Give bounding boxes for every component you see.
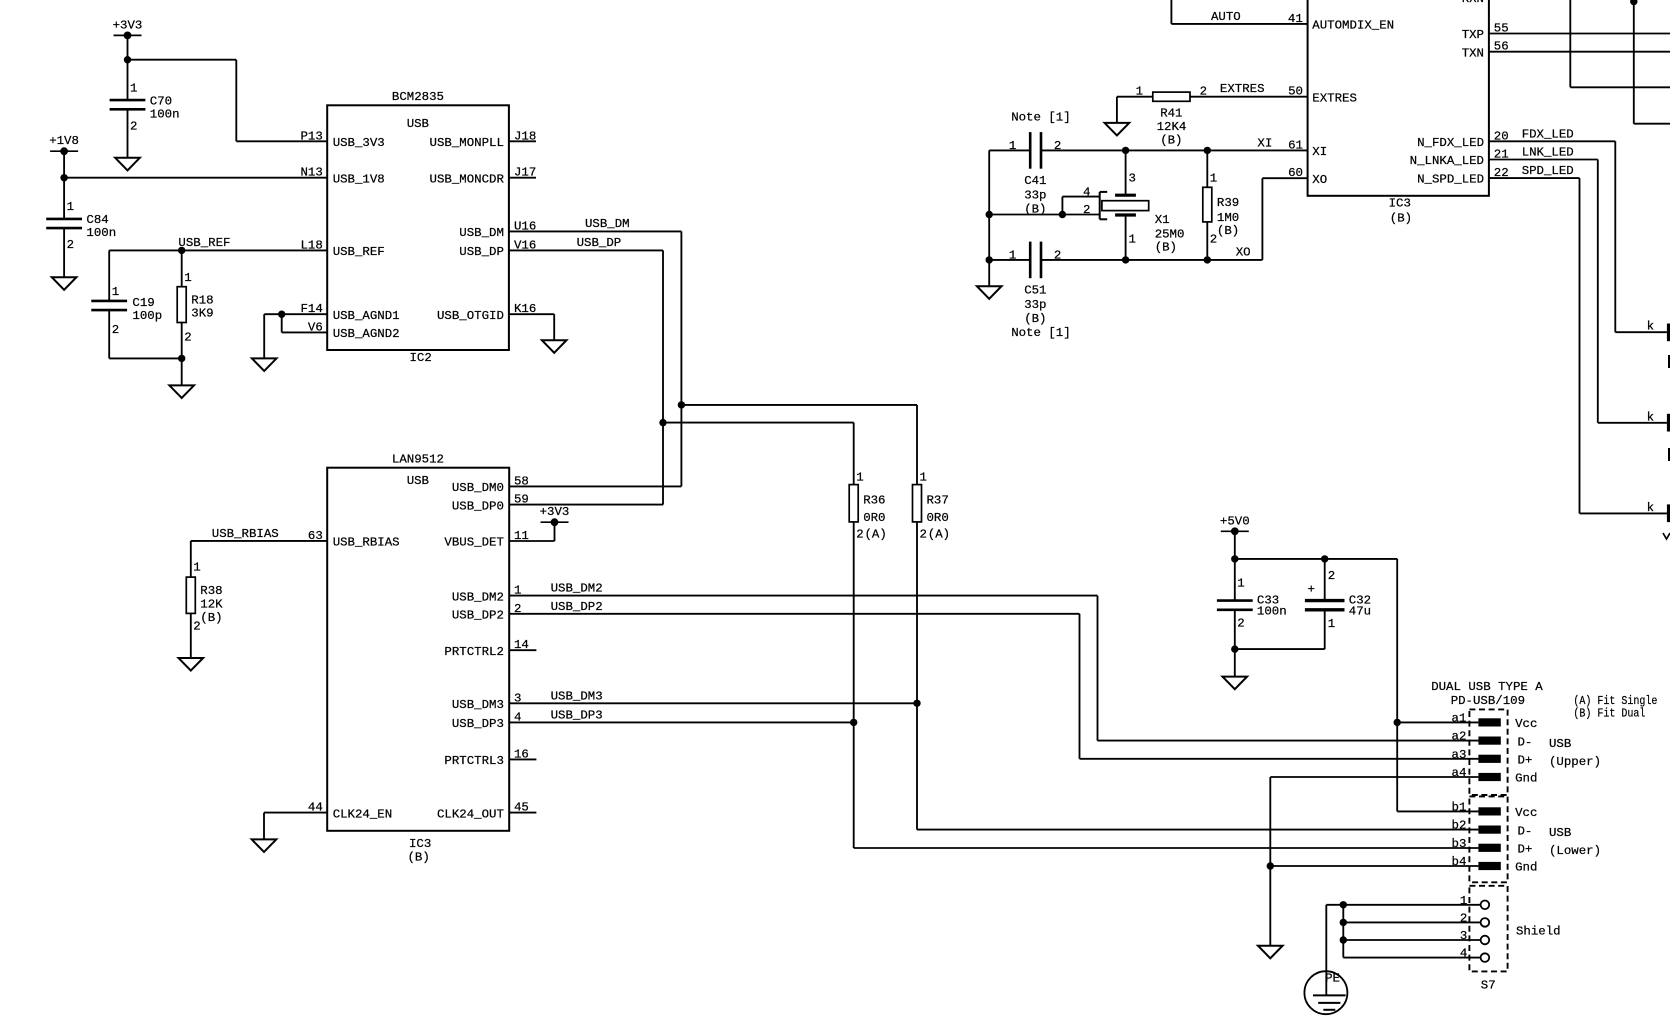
net label USB_DP2 bbox=[551, 600, 603, 614]
power +1V8 bbox=[49, 134, 79, 155]
connector shield dashed box bbox=[1469, 886, 1507, 972]
connector part PD-USB/109 bbox=[1451, 694, 1525, 708]
ETH refdes variant (B) bbox=[1390, 212, 1412, 226]
partial LED glyphs at edge bbox=[1663, 355, 1670, 539]
svg-text:100n: 100n bbox=[150, 108, 180, 122]
wire C33/C32 bottom node bbox=[1235, 648, 1325, 650]
resistor R41 bbox=[1117, 85, 1207, 148]
svg-text:58: 58 bbox=[514, 474, 529, 488]
svg-text:USB_3V3: USB_3V3 bbox=[333, 136, 385, 150]
wire Gnd a4/b4 bbox=[1267, 777, 1479, 946]
IC2 pin names left bbox=[333, 136, 400, 341]
svg-text:PD-USB/109: PD-USB/109 bbox=[1451, 694, 1525, 708]
wire TXN bbox=[1489, 51, 1670, 53]
LAN pin PRTCTRL2 stub bbox=[509, 649, 536, 651]
net label USB_REF bbox=[178, 236, 230, 250]
wire SPD_LED net bbox=[1489, 178, 1667, 513]
ETH partial pin name RXN bbox=[1462, 0, 1484, 6]
svg-text:D+: D+ bbox=[1518, 754, 1533, 768]
connector upper USB dashed box bbox=[1469, 709, 1507, 795]
LAN title LAN9512 bbox=[392, 453, 444, 467]
svg-text:USB_DP: USB_DP bbox=[577, 236, 622, 250]
IC2 pin numbers right bbox=[514, 129, 536, 316]
resistor R36 bbox=[849, 471, 887, 542]
svg-text:EXTRES: EXTRES bbox=[1312, 91, 1357, 105]
connector contact pads bbox=[1478, 718, 1500, 870]
svg-text:L18: L18 bbox=[300, 238, 322, 252]
connector refdes S7 bbox=[1481, 978, 1496, 992]
connector pin ids b1-b4 bbox=[1452, 800, 1467, 869]
LAN refdes variant (B) bbox=[408, 851, 430, 865]
ETH pin numbers left bbox=[1288, 12, 1303, 180]
svg-text:FDX_LED: FDX_LED bbox=[1522, 127, 1574, 141]
note annotation bottom bbox=[1011, 326, 1070, 340]
svg-text:R41: R41 bbox=[1160, 106, 1182, 120]
svg-text:25M0: 25M0 bbox=[1155, 228, 1185, 242]
wire USB_DP3 net bbox=[509, 522, 1478, 848]
connector shield pin numbers bbox=[1460, 894, 1467, 961]
wire USB_OTGID K16 to ground bbox=[509, 314, 554, 340]
LAN subtitle USB bbox=[407, 474, 429, 488]
svg-text:USB: USB bbox=[1549, 826, 1571, 840]
svg-text:1: 1 bbox=[184, 271, 191, 285]
svg-text:33p: 33p bbox=[1024, 189, 1046, 203]
wire shield bus bbox=[1326, 901, 1480, 995]
svg-text:USB_REF: USB_REF bbox=[333, 245, 385, 259]
LED cathode k FDX bbox=[1647, 320, 1670, 342]
svg-text:Gnd: Gnd bbox=[1515, 861, 1537, 875]
annotation (B) Fit Dual bbox=[1573, 707, 1645, 721]
svg-text:1: 1 bbox=[856, 471, 863, 485]
ground below R38 bbox=[179, 658, 204, 671]
svg-text:2: 2 bbox=[1083, 203, 1090, 217]
svg-text:1: 1 bbox=[920, 471, 927, 485]
svg-text:TXP: TXP bbox=[1462, 28, 1484, 42]
svg-text:X1: X1 bbox=[1155, 213, 1170, 227]
svg-text:BCM2835: BCM2835 bbox=[392, 90, 444, 104]
wire +3V3 to C70 and pin P13 bbox=[124, 35, 327, 141]
wire TXP bbox=[1489, 33, 1670, 35]
svg-text:0R0: 0R0 bbox=[927, 511, 949, 525]
svg-text:VBUS_DET: VBUS_DET bbox=[444, 536, 504, 550]
wire ethernet pair 2 bbox=[1630, 0, 1670, 124]
svg-text:4: 4 bbox=[1083, 186, 1090, 200]
svg-text:EXTRES: EXTRES bbox=[1220, 82, 1265, 96]
svg-text:USB_DP: USB_DP bbox=[459, 245, 504, 259]
svg-text:a2: a2 bbox=[1452, 730, 1467, 744]
crystal X1 case pins 4 and 2 bbox=[1059, 186, 1107, 220]
svg-text:2: 2 bbox=[1210, 233, 1217, 247]
svg-text:USB: USB bbox=[1549, 737, 1571, 751]
svg-text:3: 3 bbox=[1129, 171, 1136, 185]
svg-text:100n: 100n bbox=[86, 226, 116, 240]
ETH pin names left bbox=[1312, 19, 1394, 187]
IC U2 BCM2835 box bbox=[327, 105, 509, 350]
svg-text:XO: XO bbox=[1236, 246, 1251, 260]
svg-text:50: 50 bbox=[1288, 85, 1303, 99]
ground below R18 bbox=[169, 385, 194, 398]
capacitor C51 bbox=[1009, 242, 1061, 326]
svg-text:XI: XI bbox=[1257, 136, 1272, 150]
svg-text:XO: XO bbox=[1312, 173, 1327, 187]
IC U3 ethernet box bbox=[1308, 0, 1489, 196]
svg-text:1: 1 bbox=[67, 200, 74, 214]
svg-text:AUTOMDIX_EN: AUTOMDIX_EN bbox=[1312, 19, 1394, 33]
svg-text:AUTO: AUTO bbox=[1211, 10, 1241, 24]
connector pin ids a1-a4 bbox=[1452, 711, 1467, 780]
net label XO bbox=[1236, 246, 1251, 260]
svg-text:Gnd: Gnd bbox=[1515, 772, 1537, 786]
svg-text:1M0: 1M0 bbox=[1217, 211, 1239, 225]
svg-text:USB: USB bbox=[407, 117, 429, 131]
svg-text:(B): (B) bbox=[1024, 312, 1046, 326]
LAN pin names left bbox=[333, 536, 400, 822]
connector pin functions lower bbox=[1515, 806, 1537, 875]
svg-text:41: 41 bbox=[1288, 12, 1303, 26]
IC2 pin names right bbox=[430, 136, 505, 323]
wire EXTRES net bbox=[1190, 96, 1308, 98]
net label XI bbox=[1257, 136, 1272, 150]
svg-text:a3: a3 bbox=[1452, 748, 1467, 762]
svg-text:12K4: 12K4 bbox=[1157, 120, 1187, 134]
net label USB_RBIAS bbox=[212, 527, 279, 541]
ground for CLK24_EN bbox=[252, 839, 277, 852]
svg-text:2: 2 bbox=[920, 527, 927, 541]
connector shield pin circles bbox=[1481, 901, 1490, 962]
IC2 pin J17 stub bbox=[509, 177, 536, 179]
svg-text:60: 60 bbox=[1288, 166, 1303, 180]
net label FDX_LED bbox=[1522, 127, 1574, 141]
svg-text:1: 1 bbox=[1009, 248, 1016, 262]
svg-text:N_FDX_LED: N_FDX_LED bbox=[1417, 136, 1484, 150]
svg-text:2: 2 bbox=[1237, 616, 1244, 630]
svg-text:+5V0: +5V0 bbox=[1220, 514, 1250, 528]
svg-text:D-: D- bbox=[1518, 735, 1533, 749]
svg-text:D+: D+ bbox=[1518, 843, 1533, 857]
svg-text:USB_OTGID: USB_OTGID bbox=[437, 309, 504, 323]
IC2 pin J18 stub bbox=[509, 140, 536, 142]
capacitor C41 bbox=[1009, 132, 1061, 217]
svg-text:USB_DP0: USB_DP0 bbox=[452, 499, 504, 513]
power +3V3 bbox=[113, 18, 143, 39]
svg-text:+1V8: +1V8 bbox=[49, 134, 79, 148]
svg-text:SPD_LED: SPD_LED bbox=[1522, 164, 1574, 178]
svg-text:USB: USB bbox=[407, 474, 429, 488]
svg-text:PRTCTRL3: PRTCTRL3 bbox=[444, 754, 504, 768]
LAN refdes IC3 bbox=[409, 837, 431, 851]
svg-text:Note [1]: Note [1] bbox=[1011, 326, 1070, 340]
svg-text:PRTCTRL2: PRTCTRL2 bbox=[444, 645, 504, 659]
svg-text:USB_RBIAS: USB_RBIAS bbox=[212, 527, 279, 541]
IC2 pin numbers left bbox=[300, 129, 322, 334]
svg-text:1: 1 bbox=[112, 285, 119, 299]
earth symbol PE bbox=[1304, 971, 1347, 1014]
net label USB_DM bbox=[585, 217, 630, 231]
svg-text:D-: D- bbox=[1518, 824, 1533, 838]
svg-text:47u: 47u bbox=[1349, 605, 1371, 619]
svg-text:b3: b3 bbox=[1452, 837, 1467, 851]
IC2 refdes IC2 bbox=[410, 351, 432, 365]
wire USB_DM2 net bbox=[509, 596, 1478, 741]
net label LNK_LED bbox=[1522, 146, 1574, 160]
svg-text:100p: 100p bbox=[132, 309, 162, 323]
connector title DUAL USB TYPE A bbox=[1431, 680, 1543, 694]
LED cathode k LNK bbox=[1647, 410, 1670, 431]
svg-text:XI: XI bbox=[1312, 145, 1327, 159]
wire LNK_LED net bbox=[1489, 160, 1667, 423]
svg-text:1: 1 bbox=[1009, 139, 1016, 153]
svg-text:PE: PE bbox=[1325, 972, 1340, 986]
svg-text:USB_DM0: USB_DM0 bbox=[452, 481, 504, 495]
svg-text:R36: R36 bbox=[863, 493, 885, 507]
capacitor C19 bbox=[91, 285, 162, 358]
wire left rail to ground bbox=[986, 150, 1063, 286]
svg-text:CLK24_EN: CLK24_EN bbox=[333, 807, 393, 821]
LED cathode k SPD bbox=[1647, 501, 1670, 522]
svg-text:k: k bbox=[1647, 501, 1654, 515]
svg-text:C70: C70 bbox=[150, 95, 172, 109]
svg-text:USB_DP3: USB_DP3 bbox=[551, 708, 603, 722]
label USB (Upper) bbox=[1549, 737, 1601, 769]
svg-text:33p: 33p bbox=[1024, 298, 1046, 312]
wire USB_DP2 net bbox=[509, 614, 1478, 759]
wire USB_RBIAS net bbox=[191, 541, 327, 577]
IC2 title BCM2835 bbox=[392, 90, 444, 104]
svg-text:C19: C19 bbox=[132, 296, 154, 310]
svg-text:IC3: IC3 bbox=[409, 837, 431, 851]
svg-text:(A): (A) bbox=[865, 527, 887, 541]
ground for USB connector bbox=[1258, 946, 1283, 959]
svg-text:1: 1 bbox=[1136, 85, 1143, 99]
svg-text:2: 2 bbox=[112, 323, 119, 337]
ETH pin names right bbox=[1410, 28, 1484, 186]
svg-text:(B): (B) bbox=[1155, 241, 1177, 255]
svg-text:1: 1 bbox=[1129, 233, 1136, 247]
svg-text:2: 2 bbox=[184, 331, 191, 345]
ground for USB_AGND bbox=[252, 358, 277, 371]
svg-text:N_LNKA_LED: N_LNKA_LED bbox=[1410, 154, 1484, 168]
svg-text:USB_DM3: USB_DM3 bbox=[551, 689, 603, 703]
svg-text:+3V3: +3V3 bbox=[540, 505, 570, 519]
wire +1V8 to C84 and pin N13 bbox=[60, 151, 327, 219]
IC2 subtitle USB bbox=[407, 117, 429, 131]
svg-text:CLK24_OUT: CLK24_OUT bbox=[437, 807, 504, 821]
svg-text:USB_DM3: USB_DM3 bbox=[452, 698, 504, 712]
wire USB_AGND1/2 to ground bbox=[264, 311, 327, 359]
svg-text:USB_DM: USB_DM bbox=[585, 217, 630, 231]
power +5V0 bbox=[1220, 514, 1250, 535]
resistor R18 bbox=[177, 250, 213, 385]
svg-text:USB_DP2: USB_DP2 bbox=[551, 600, 603, 614]
ground for USB_OTGID bbox=[542, 340, 567, 353]
wire ethernet pair 1 bbox=[1570, 0, 1670, 87]
label USB (Lower) bbox=[1549, 826, 1601, 858]
svg-text:2: 2 bbox=[856, 527, 863, 541]
svg-text:2: 2 bbox=[1200, 85, 1207, 99]
svg-text:IC3: IC3 bbox=[1389, 197, 1411, 211]
svg-text:USB_RBIAS: USB_RBIAS bbox=[333, 536, 400, 550]
connector pin functions upper bbox=[1515, 717, 1537, 786]
connector lower USB dashed box bbox=[1469, 796, 1507, 882]
svg-text:2: 2 bbox=[130, 120, 137, 134]
capacitor C33 bbox=[1217, 577, 1287, 677]
wire USB_DM net bbox=[509, 231, 917, 486]
svg-text:Vcc: Vcc bbox=[1515, 717, 1537, 731]
ground for crystal rail bbox=[977, 286, 1002, 299]
net label USB_DP bbox=[577, 236, 622, 250]
wire AUTO net bbox=[1171, 0, 1307, 24]
svg-text:100n: 100n bbox=[1257, 605, 1287, 619]
svg-text:Shield: Shield bbox=[1516, 925, 1561, 939]
svg-text:USB_1V8: USB_1V8 bbox=[333, 172, 385, 186]
svg-text:USB_REF: USB_REF bbox=[178, 236, 230, 250]
wire Vcc to a1 bbox=[1397, 721, 1478, 723]
svg-text:3K9: 3K9 bbox=[191, 307, 213, 321]
svg-text:DUAL USB TYPE A: DUAL USB TYPE A bbox=[1431, 680, 1543, 694]
svg-text:61: 61 bbox=[1288, 138, 1303, 152]
svg-text:(B): (B) bbox=[1160, 134, 1182, 148]
svg-text:0R0: 0R0 bbox=[863, 511, 885, 525]
net label EXTRES bbox=[1220, 82, 1265, 96]
svg-text:1: 1 bbox=[1328, 617, 1335, 631]
svg-text:R37: R37 bbox=[927, 493, 949, 507]
svg-text:LAN9512: LAN9512 bbox=[392, 453, 444, 467]
ground for R41 bbox=[1105, 123, 1130, 136]
svg-text:1: 1 bbox=[130, 82, 137, 96]
svg-text:(B): (B) bbox=[1217, 224, 1239, 238]
svg-text:N13: N13 bbox=[300, 166, 322, 180]
annotation (A) Fit Single bbox=[1573, 694, 1657, 708]
net label USB_DM2 bbox=[551, 582, 603, 596]
svg-text:2: 2 bbox=[193, 620, 200, 634]
svg-text:(B): (B) bbox=[408, 851, 430, 865]
capacitor C84 bbox=[46, 200, 116, 277]
svg-text:+3V3: +3V3 bbox=[113, 18, 143, 32]
svg-text:1: 1 bbox=[193, 561, 200, 575]
svg-text:USB_AGND2: USB_AGND2 bbox=[333, 327, 400, 341]
wire +5V0 rail bbox=[1231, 531, 1401, 811]
resistor R38 bbox=[186, 561, 223, 658]
net label USB_DM3 bbox=[551, 689, 603, 703]
svg-text:C84: C84 bbox=[86, 213, 108, 227]
svg-text:(B): (B) bbox=[1390, 212, 1412, 226]
svg-text:2: 2 bbox=[67, 238, 74, 252]
svg-text:b2: b2 bbox=[1452, 819, 1467, 833]
label Shield bbox=[1516, 925, 1561, 939]
ground below C84 bbox=[52, 277, 77, 290]
svg-text:(B) Fit Dual: (B) Fit Dual bbox=[1573, 707, 1645, 721]
ground below C70 bbox=[115, 158, 140, 171]
svg-text:Vcc: Vcc bbox=[1515, 806, 1537, 820]
svg-text:2: 2 bbox=[1328, 569, 1335, 583]
LAN pin names right bbox=[437, 481, 504, 821]
svg-text:USB_MONPLL: USB_MONPLL bbox=[430, 136, 504, 150]
ETH pin numbers right bbox=[1494, 22, 1509, 181]
svg-text:LNK_LED: LNK_LED bbox=[1522, 146, 1574, 160]
svg-text:TXN: TXN bbox=[1462, 46, 1484, 60]
LAN pin PRTCTRL3 stub bbox=[509, 758, 536, 760]
wire USB_DM3 net bbox=[509, 522, 1478, 830]
note annotation top bbox=[1011, 110, 1070, 124]
svg-text:k: k bbox=[1647, 320, 1654, 334]
svg-text:(B): (B) bbox=[200, 611, 222, 625]
svg-text:N_SPD_LED: N_SPD_LED bbox=[1417, 172, 1484, 186]
wire XI net bbox=[989, 147, 1307, 154]
svg-text:USB_DM2: USB_DM2 bbox=[452, 590, 504, 604]
svg-text:2: 2 bbox=[1054, 139, 1061, 153]
svg-text:USB_MONCDR: USB_MONCDR bbox=[430, 172, 505, 186]
svg-text:1: 1 bbox=[1237, 577, 1244, 591]
resistor R37 bbox=[913, 471, 951, 542]
svg-text:59: 59 bbox=[514, 493, 529, 507]
LAN pin numbers left bbox=[308, 529, 323, 815]
LAN pin numbers right bbox=[514, 474, 529, 814]
capacitor C32 electrolytic bbox=[1305, 569, 1371, 649]
svg-text:USB_DP2: USB_DP2 bbox=[452, 609, 504, 623]
svg-text:C41: C41 bbox=[1024, 174, 1046, 188]
svg-text:R18: R18 bbox=[191, 293, 213, 307]
svg-text:R38: R38 bbox=[200, 584, 222, 598]
svg-text:Note [1]: Note [1] bbox=[1011, 110, 1070, 124]
wire USB_REF net bbox=[109, 247, 327, 301]
net label SPD_LED bbox=[1522, 164, 1574, 178]
svg-text:P13: P13 bbox=[300, 129, 322, 143]
power +3V3 at VBUS_DET bbox=[540, 505, 570, 526]
wire VBUS_DET bbox=[509, 522, 554, 541]
svg-text:S7: S7 bbox=[1481, 978, 1496, 992]
wire Vcc to b1 bbox=[1397, 810, 1478, 812]
svg-text:+: + bbox=[1308, 582, 1315, 596]
ground below C33 bbox=[1223, 677, 1248, 690]
wire FDX_LED net bbox=[1489, 141, 1667, 332]
ETH refdes IC3 bbox=[1389, 197, 1411, 211]
svg-text:USB_AGND1: USB_AGND1 bbox=[333, 309, 400, 323]
LAN pin CLK24_OUT stub bbox=[509, 812, 536, 814]
resistor R39 bbox=[1203, 150, 1239, 260]
wire C19 to R18 bottom node bbox=[109, 355, 185, 362]
svg-text:2: 2 bbox=[1054, 248, 1061, 262]
svg-text:(Upper): (Upper) bbox=[1549, 755, 1601, 769]
svg-text:R39: R39 bbox=[1217, 196, 1239, 210]
net label AUTO bbox=[1211, 10, 1241, 24]
svg-text:(Lower): (Lower) bbox=[1549, 844, 1601, 858]
wire CLK24_EN to ground bbox=[264, 813, 327, 840]
wire XO net bbox=[989, 178, 1307, 263]
capacitor C70 bbox=[110, 82, 180, 158]
svg-text:12K: 12K bbox=[200, 598, 223, 612]
svg-text:USB_DM: USB_DM bbox=[459, 226, 504, 240]
svg-text:C51: C51 bbox=[1024, 284, 1046, 298]
svg-text:IC2: IC2 bbox=[410, 351, 432, 365]
svg-text:RXN: RXN bbox=[1462, 0, 1484, 6]
svg-text:USB_DP3: USB_DP3 bbox=[452, 717, 504, 731]
svg-text:USB_DM2: USB_DM2 bbox=[551, 582, 603, 596]
IC U3 LAN9512 box bbox=[327, 468, 509, 831]
svg-text:k: k bbox=[1647, 410, 1654, 424]
svg-text:(A): (A) bbox=[928, 527, 950, 541]
wire USB_DP net bbox=[509, 250, 854, 504]
net label USB_DP3 bbox=[551, 708, 603, 722]
crystal X1 bbox=[1102, 150, 1185, 260]
svg-text:1: 1 bbox=[1210, 171, 1217, 185]
